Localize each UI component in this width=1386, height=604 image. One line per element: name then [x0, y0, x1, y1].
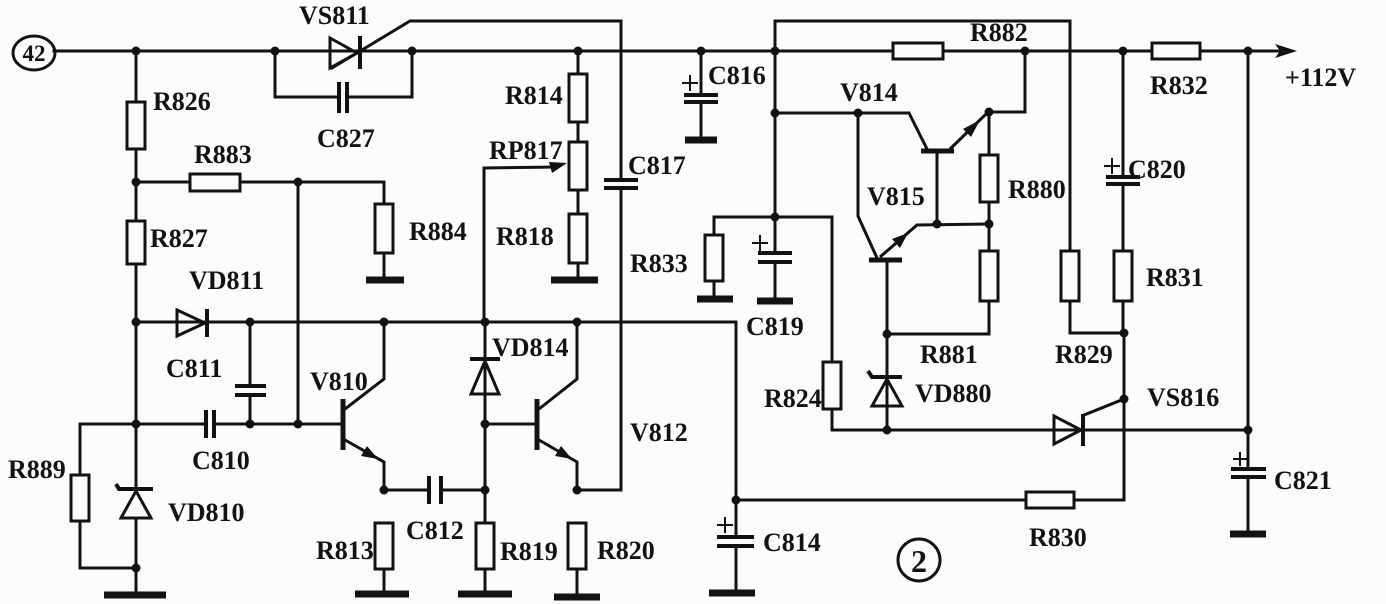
wire R883 right lead to R884 corner [240, 181, 384, 184]
wire +112V output arrowhead [1275, 44, 1297, 58]
node junction C814 top [732, 496, 741, 505]
wire loop right vertical x=1070 down to R829 [1069, 21, 1072, 251]
resistor R819 [476, 523, 494, 569]
svg-text:R833: R833 [630, 249, 688, 278]
diode VD814 cathode bar [470, 357, 500, 361]
resistor R830 [1026, 492, 1074, 508]
transistor V812 collector [539, 322, 577, 409]
svg-text:R881: R881 [920, 340, 978, 369]
node junction C827 left [271, 47, 280, 56]
svg-text:R818: R818 [496, 222, 554, 251]
wire C817 bottom lead down to V812 emitter node [620, 190, 623, 490]
wire R813 bottom lead [383, 569, 386, 591]
wire R830 left run to C814 node [736, 499, 1026, 502]
capacitor C817 plates [604, 180, 638, 188]
resistor R829 [1061, 251, 1079, 301]
capacitor C816 plus mark [682, 75, 698, 91]
wire VS816 gate diagonal [1084, 399, 1124, 415]
transistor V815 emitter arrow [892, 233, 908, 248]
node junction R880 R881 [985, 220, 994, 229]
node junction R820 top [573, 486, 582, 495]
wire R826/R827 vertical drop x=136 [135, 51, 138, 102]
wire R833 top lead [713, 217, 716, 235]
node junction base bus left [132, 420, 141, 429]
node junction R833 C819 R824 [771, 213, 780, 222]
wire R814 to RP817 [577, 122, 580, 142]
resistor R827 [127, 221, 145, 264]
resistor R832 [1152, 43, 1200, 59]
node junction R883 drop bottom [294, 420, 303, 429]
svg-text:R831: R831 [1146, 263, 1204, 292]
wire C819 bottom lead [774, 263, 777, 298]
wire C811 top lead [249, 322, 252, 384]
transistor V815 base bar [869, 258, 902, 263]
node junction R826 top [132, 47, 141, 56]
transistor V815 emitter [880, 224, 989, 257]
wire C816 bottom lead [700, 102, 703, 137]
wire node to R833 [714, 216, 775, 219]
ground bar below R884 [366, 277, 404, 284]
svg-text:+112V: +112V [1285, 63, 1356, 92]
wire R830 right corner [1074, 499, 1124, 502]
wire R814 top lead [577, 51, 580, 74]
capacitor C819 plus mark [752, 235, 768, 251]
resistor R881 [980, 251, 998, 301]
wire VD880 lead x=887 [886, 334, 889, 430]
wire R880 bottom lead [988, 202, 991, 224]
wire R884 top lead [383, 182, 386, 204]
svg-text:V814: V814 [840, 78, 898, 107]
resistor R883 [190, 174, 240, 191]
ground bar below C814 [709, 590, 755, 597]
wire R820 bottom lead [576, 569, 579, 594]
thyristor VS816 cathode bar [1081, 414, 1085, 446]
svg-text:R820: R820 [597, 536, 655, 565]
wire feedback vertical x=775 [774, 21, 777, 217]
svg-text:R880: R880 [1008, 175, 1066, 204]
svg-text:R827: R827 [150, 224, 208, 253]
svg-text:VD814: VD814 [492, 333, 569, 362]
wire C821 vertical x=1248 [1247, 51, 1250, 467]
wire R883 left lead [136, 181, 190, 184]
transistor V814 base lead [936, 153, 939, 224]
node junction R819 top [481, 486, 490, 495]
wire VD810 top lead [135, 424, 138, 489]
svg-text:C814: C814 [763, 528, 821, 557]
wire bus y=322 VD811 row [136, 321, 736, 324]
ground bar below C816 [685, 137, 717, 144]
potentiometer RP817 [569, 142, 587, 190]
wire C816 top lead [700, 51, 703, 93]
node junction VD814 top [481, 318, 490, 327]
diode VD810 cathode bar [116, 484, 153, 489]
svg-text:42: 42 [23, 41, 46, 66]
capacitor C816 plates [684, 95, 718, 102]
resistor R820 [568, 523, 586, 569]
diode VD811 cathode bar [205, 309, 209, 337]
node junction R889 return [132, 564, 141, 573]
svg-text:R884: R884 [409, 217, 467, 246]
node junction R829 R831 bottom [1120, 329, 1129, 338]
wire R831 bottom lead [1122, 301, 1125, 333]
transistor V814 base bar [921, 149, 954, 154]
svg-text:V812: V812 [630, 418, 688, 447]
wire C814 bottom lead [735, 547, 738, 591]
svg-text:R882: R882 [970, 18, 1028, 47]
wire R883 node down to base bus x=298 [297, 182, 300, 424]
svg-text:VD811: VD811 [189, 266, 264, 295]
node junction R813 top [380, 486, 389, 495]
svg-text:V815: V815 [867, 182, 925, 211]
wire V814 emitter node to R882 right [989, 51, 1025, 112]
node junction feedback x775 on rail [771, 47, 780, 56]
wire R827 bottom to bus y=322 [135, 264, 138, 322]
node junction C811 bottom [246, 420, 255, 429]
wire V812 base lead [485, 423, 536, 426]
wire VD810 cathode to ground bar [135, 518, 138, 592]
wire C814 top lead [735, 500, 738, 535]
capacitor C810 plates [206, 410, 214, 438]
svg-text:R813: R813 [316, 536, 374, 565]
node junction V814 base lead [933, 220, 942, 229]
capacitor C820 plus mark [1104, 158, 1120, 174]
capacitor C819 plates [758, 253, 792, 262]
node 42 input circle [13, 36, 55, 70]
resistor R818 [569, 214, 587, 263]
wire C820 top lead [1122, 51, 1125, 175]
diode VD810 triangle [121, 491, 151, 518]
ground bar below R818 [551, 277, 598, 284]
wire R882 bypass loop top y=21 [775, 20, 1070, 23]
potentiometer RP817 wiper arrow line [484, 167, 558, 168]
node junction C821 wire [1244, 426, 1253, 435]
capacitor C811 plates [235, 386, 266, 395]
wire node to R824 drop [775, 217, 832, 362]
wire VS816 gate drop x=1124 [1123, 333, 1126, 500]
node junction V812 collector [573, 318, 582, 327]
svg-text:R883: R883 [194, 140, 252, 169]
wire R826 to R883 node [135, 149, 138, 221]
thyristor VS816 triangle [1054, 416, 1081, 444]
wire R818 bottom lead to ground [577, 263, 580, 277]
ground bar below R820 [554, 594, 600, 601]
svg-text:2: 2 [911, 543, 927, 579]
node junction V814 emitter R880 [985, 108, 994, 117]
transistor V812 emitter [539, 440, 577, 490]
svg-text:RP817: RP817 [489, 136, 563, 165]
node junction R814 top [574, 47, 583, 56]
transistor V810 base bar [341, 399, 346, 450]
resistor R833 [705, 235, 723, 281]
diode VD811 triangle [177, 310, 205, 336]
wire R813 node to C812 [384, 489, 427, 492]
wire R880 top lead [988, 112, 991, 155]
wire R884 bottom lead to ground [383, 253, 386, 277]
wire V812 emitter to x=621 drop [577, 489, 621, 492]
node junction VD880 bottom [883, 426, 892, 435]
transistor V812 base bar [535, 399, 540, 450]
node 2 page marker circle [898, 539, 940, 581]
node junction R827 bottom bus [132, 318, 141, 327]
potentiometer RP817 wiper arrowhead [549, 162, 567, 173]
transistor V814 emitter [950, 112, 989, 149]
svg-text:V810: V810 [310, 367, 368, 396]
diode VS811 cathode bar [358, 36, 362, 69]
wire V814 base row y=113 [775, 112, 909, 115]
wire R829 bottom corner to node [1070, 301, 1124, 333]
svg-text:R814: R814 [505, 81, 563, 110]
svg-text:R819: R819 [500, 537, 558, 566]
svg-text:VD880: VD880 [915, 379, 992, 408]
wire C817 top lead x=621 [620, 21, 623, 178]
node junction C820 top [1119, 47, 1128, 56]
capacitor C814 plus mark [717, 517, 733, 533]
transistor V815 collector [858, 113, 877, 258]
wire C819 top lead [774, 217, 777, 251]
wire bottom bus y=430 [832, 429, 1248, 432]
wire R889 bottom return [80, 521, 136, 568]
svg-text:C810: C810 [192, 446, 250, 475]
resistor R826 [127, 102, 145, 149]
node junction V815 collector [854, 109, 863, 118]
node junction C821 top [1244, 47, 1253, 56]
wire base bus y=424 C810 to V810 base [216, 423, 342, 426]
diode VD880 triangle [872, 379, 902, 406]
ground bar below R833 [697, 296, 733, 303]
capacitor C812 plates [429, 476, 441, 504]
capacitor C821 plus mark [1233, 452, 1247, 466]
resistor R880 [980, 155, 998, 202]
node junction VD880 top [883, 330, 892, 339]
transistor V810 collector [345, 322, 384, 409]
transistor V815 base lead [886, 262, 889, 334]
node junction C827 right [408, 47, 417, 56]
capacitor C820 plates [1106, 177, 1140, 184]
svg-text:VS811: VS811 [299, 1, 370, 30]
svg-text:C817: C817 [628, 151, 686, 180]
svg-text:C820: C820 [1128, 155, 1186, 184]
resistor R889 [71, 475, 89, 521]
svg-text:R830: R830 [1029, 523, 1087, 552]
wire C812 to R819 node [442, 489, 485, 492]
wire C820 to R831 [1122, 186, 1125, 251]
svg-text:C821: C821 [1274, 466, 1332, 495]
wire corner x=736 down to C814 node [735, 322, 738, 500]
wire RP817 wiper drop x=484 [483, 168, 486, 322]
svg-text:VS816: VS816 [1147, 383, 1219, 412]
wire R881 bottom return to VD880 node [887, 301, 989, 334]
diode VS811 triangle [330, 38, 357, 68]
svg-text:R826: R826 [153, 87, 211, 116]
node junction C816 top [697, 47, 706, 56]
wire VD814 chain x=485 [484, 322, 487, 523]
capacitor C814 plates [717, 537, 754, 546]
transistor V810 emitter [345, 440, 384, 490]
diode VD880 cathode bar [868, 371, 902, 377]
ground bar below VD810 [104, 592, 166, 599]
wire base bus y=424 left part [80, 423, 204, 426]
node junction R883 right [294, 178, 303, 187]
resistor R824 [823, 362, 841, 409]
node junction VS816 gate [1120, 395, 1129, 404]
svg-text:R832: R832 [1150, 71, 1208, 100]
wire R889 top lead [79, 424, 82, 475]
transistor V814 emitter arrow [963, 120, 980, 137]
wire R824 bottom lead [831, 409, 834, 430]
svg-text:C816: C816 [708, 61, 766, 90]
capacitor C827 plates [339, 82, 347, 113]
resistor R831 [1114, 251, 1132, 301]
svg-text:R824: R824 [764, 384, 822, 413]
wire C811 bottom lead [249, 396, 252, 424]
ground bar below R813 [355, 591, 409, 598]
diode VD814 triangle [471, 361, 499, 394]
svg-text:R889: R889 [8, 455, 66, 484]
svg-text:C827: C827 [317, 124, 375, 153]
wire VS811 gate diagonal [332, 21, 620, 68]
resistor R814 [569, 74, 587, 122]
wire R881 top lead [988, 224, 991, 251]
wire R819 bottom lead [484, 569, 487, 591]
resistor R882 [893, 43, 943, 59]
wire C827 right stub [349, 51, 412, 97]
node junction R883 left [132, 178, 141, 187]
ground bar below R819 [458, 591, 512, 598]
node junction V812 base [481, 420, 490, 429]
transistor V814 collector [909, 113, 927, 149]
wire main +112V rail y=51 [54, 50, 1281, 53]
ground bar below C821 [1230, 531, 1266, 538]
node junction V810 collector [380, 318, 389, 327]
svg-text:C819: C819 [746, 312, 804, 341]
node junction C811 top [246, 318, 255, 327]
ground bar below C819 [757, 298, 793, 305]
wire RP817 to R818 [577, 190, 580, 214]
transistor V812 emitter arrow [555, 446, 572, 459]
svg-text:R829: R829 [1055, 340, 1113, 369]
transistor V810 emitter arrow [361, 446, 378, 459]
svg-text:C811: C811 [166, 354, 222, 383]
wire C827 left stub [275, 51, 336, 97]
capacitor C821 plates [1231, 469, 1266, 477]
resistor R813 [375, 523, 393, 569]
resistor R884 [375, 204, 393, 253]
wire R833 bottom lead [713, 281, 716, 296]
wire C821 bottom lead [1247, 479, 1250, 531]
node junction V814 row left [771, 109, 780, 118]
svg-text:C812: C812 [406, 516, 464, 545]
svg-text:VD810: VD810 [168, 498, 245, 527]
node junction R882 right [1021, 47, 1030, 56]
wire left vertical x=136 down to ground [135, 322, 138, 489]
